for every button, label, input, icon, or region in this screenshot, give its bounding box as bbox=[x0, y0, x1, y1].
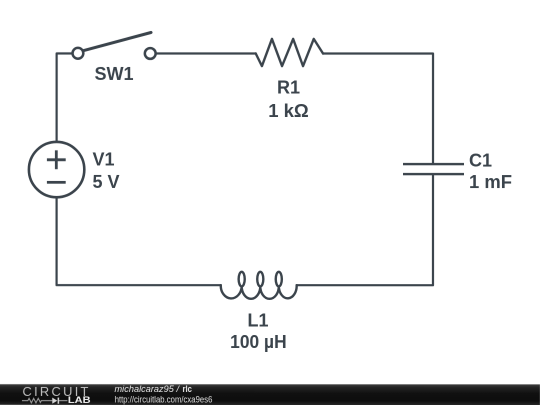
svg-text:1 mF: 1 mF bbox=[469, 172, 512, 192]
svg-text:SW1: SW1 bbox=[95, 64, 134, 84]
wire resistor to top-right corner down to capacitor bbox=[323, 54, 433, 164]
svg-text:100 µH: 100 µH bbox=[230, 332, 287, 352]
minus sign bbox=[47, 181, 66, 184]
diode triangle bbox=[52, 398, 57, 404]
svg-text:R1: R1 bbox=[277, 78, 300, 98]
switch SW1 bbox=[73, 32, 156, 58]
resistor R1 bbox=[256, 39, 323, 66]
top plate bbox=[403, 163, 464, 165]
capacitor C1 bbox=[403, 164, 464, 174]
switch blade bbox=[81, 32, 151, 51]
voltage source V1 bbox=[29, 142, 84, 197]
bottom plate bbox=[403, 173, 464, 175]
svg-text:http://circuitlab.com/cxa9es6: http://circuitlab.com/cxa9es6 bbox=[115, 394, 213, 404]
svg-text:C1: C1 bbox=[469, 150, 492, 170]
wire switch to resistor bbox=[156, 52, 256, 54]
svg-text:1 kΩ: 1 kΩ bbox=[268, 101, 309, 121]
svg-text:V1: V1 bbox=[93, 149, 115, 169]
wire top-left to switch bbox=[57, 53, 73, 141]
svg-text:5 V: 5 V bbox=[93, 172, 120, 192]
wire capacitor to bottom-right corner to inductor bbox=[297, 175, 433, 285]
logo squiggle: resistor + diode bbox=[22, 398, 68, 404]
svg-text:L1: L1 bbox=[247, 310, 268, 330]
inductor L1 bbox=[221, 272, 297, 299]
svg-text:LAB: LAB bbox=[68, 395, 91, 405]
plus sign bbox=[47, 150, 66, 169]
switch right terminal bbox=[145, 48, 156, 59]
wire inductor to bottom-left corner up to source bbox=[57, 198, 221, 285]
switch left terminal bbox=[73, 48, 84, 59]
